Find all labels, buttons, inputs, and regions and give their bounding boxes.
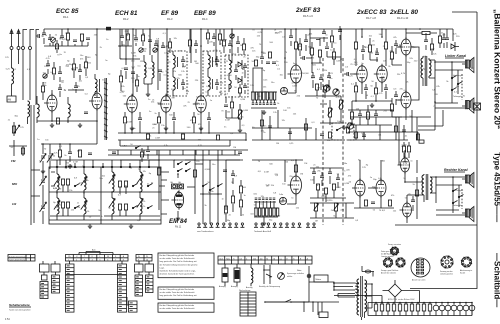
- nf lower parts: [260, 120, 263, 126]
- svg-text:Tasten-bezeichnung: Tasten-bezeichnung: [9, 258, 25, 261]
- AM coil column 2: [84, 174, 86, 190]
- speaker right lower: [466, 209, 470, 217]
- contact pairs mid: [202, 185, 203, 186]
- wire IF can2 links: [208, 51, 213, 96]
- svg-text:Tasten von oben gesehen: Tasten von oben gesehen: [9, 309, 31, 312]
- wire EM84 links: [159, 150, 195, 216]
- right mid extra parts: [402, 146, 405, 152]
- resistor R7: [58, 150, 61, 157]
- ground det: [238, 128, 242, 133]
- svg-text:Type 4515d/55——: Type 4515d/55——: [493, 152, 500, 222]
- switch bank B ladder: [52, 275, 60, 293]
- svg-text:Abschirmung im: Abschirmung im: [460, 269, 473, 272]
- netz pot: [278, 273, 285, 280]
- wire tone II: [310, 168, 354, 218]
- note paragraph 1: [158, 253, 214, 278]
- volume pot circle a: [324, 85, 330, 91]
- small tube cap II: [279, 197, 286, 204]
- junction dots transformer: [333, 282, 335, 284]
- table voltages: [240, 292, 256, 316]
- fuse above transformer: [365, 270, 371, 273]
- heater parts: [238, 152, 242, 154]
- svg-text:Fassung von der: Fassung von der: [440, 270, 453, 273]
- svg-text:Spannungs-: Spannungs-: [287, 273, 297, 275]
- wire IF verticals: [120, 29, 232, 96]
- svg-text:—Schaltbild—: —Schaltbild—: [493, 253, 500, 307]
- svg-text:1M: 1M: [266, 185, 269, 187]
- speaker right upper: [466, 175, 470, 183]
- wire splitter bottom: [352, 82, 392, 101]
- component box psu: [319, 312, 328, 318]
- tuning gang cap 2: [40, 202, 47, 212]
- wire tone links: [305, 72, 341, 98]
- svg-text:an der mittler Taste bei der S: an der mittler Taste bei der Schalterste…: [160, 257, 196, 260]
- output extra parts top: [424, 40, 428, 42]
- svg-text:an der mittler Taste bei der S: an der mittler Taste bei der Schalterste…: [160, 291, 196, 294]
- grid resistor row: [252, 92, 254, 100]
- svg-text:Ph: Ph: [68, 256, 70, 258]
- wire pots: [320, 96, 344, 125]
- wire OPT left taps: [423, 56, 435, 102]
- anode resistor II: [294, 165, 297, 172]
- resistor R8: [78, 150, 81, 157]
- right channel bottom rail: [395, 160, 477, 225]
- svg-text:0,5M: 0,5M: [292, 86, 297, 88]
- table switch positions main: [66, 255, 129, 262]
- ECC85 triode b: [92, 93, 102, 109]
- osc coil cluster coil1: [144, 62, 146, 78]
- ground AM box: [88, 224, 92, 229]
- svg-text:4 54: 4 54: [5, 318, 10, 321]
- svg-text:Fassg. von unten: Fassg. von unten: [388, 243, 401, 246]
- svg-text:Schalterskizze: Schalterskizze: [9, 303, 30, 307]
- anode resistor R32: [384, 42, 387, 49]
- coupling caps right: [347, 72, 349, 76]
- switch bank C ladder: [66, 264, 75, 312]
- ground EM84: [176, 216, 180, 221]
- EBF89 tube: [196, 96, 206, 112]
- ground splitter: [370, 103, 374, 108]
- terminal pair far: [307, 223, 309, 225]
- treble pot: [328, 108, 331, 117]
- EF83 tube II: [291, 176, 302, 194]
- ground FM 4: [68, 164, 72, 169]
- ECH81 tube: [127, 96, 137, 112]
- svg-text:„Ballerina Konzert Stereo 20“: „Ballerina Konzert Stereo 20“: [493, 9, 500, 129]
- ground FM 2: [78, 123, 82, 128]
- FM coil L4: [68, 104, 70, 117]
- wire AM top feeds: [49, 160, 159, 168]
- svg-text:0,5M: 0,5M: [336, 187, 341, 189]
- ground ECH81: [130, 126, 134, 131]
- IF can 2 trim caps: [215, 60, 219, 62]
- svg-text:0,5M: 0,5M: [155, 137, 160, 139]
- AM resistor pair 1: [61, 179, 64, 185]
- speaker switch contacts II: [452, 190, 453, 191]
- svg-text:8: 8: [123, 259, 124, 261]
- output transformer left core: [425, 56, 427, 86]
- switch bank D ladder: [118, 264, 127, 312]
- speaker switch dashed link right: [461, 189, 463, 209]
- wire ELL80 links: [392, 40, 406, 120]
- antenna terminals: [10, 47, 13, 50]
- choke coil: [251, 268, 253, 283]
- wire AGC return: [120, 140, 230, 146]
- top fm extra labels parts: [48, 38, 52, 40]
- ratio detector can: [225, 55, 248, 97]
- output transformer right core: [426, 174, 428, 200]
- coil L2: [28, 101, 30, 117]
- trimmer C2: [51, 38, 56, 43]
- osc coil cluster coil2: [152, 62, 154, 78]
- svg-text:4: 4: [92, 259, 93, 261]
- ground pots: [342, 125, 346, 130]
- svg-text:1M: 1M: [315, 220, 318, 222]
- resistor R2: [21, 148, 24, 154]
- svg-text:0,5M: 0,5M: [131, 53, 136, 55]
- svg-text:Rö.2: Rö.2: [123, 17, 129, 21]
- right channel bottom parts: [415, 190, 418, 196]
- wire mid col: [226, 180, 241, 222]
- socket diagram octal flower: [441, 256, 453, 268]
- IF can 2 box: [203, 51, 221, 96]
- resistors mid col: [239, 186, 242, 193]
- antenna hook 3: [23, 30, 27, 47]
- svg-text:Bei der Überprüfung gilt der B: Bei der Überprüfung gilt der Buchstabe: [160, 304, 195, 307]
- svg-text:Rö.4: Rö.4: [202, 17, 208, 21]
- cap C21: [303, 56, 305, 60]
- cap C30: [361, 50, 365, 52]
- svg-text:1M: 1M: [276, 143, 279, 145]
- svg-text:schalter: schalter: [297, 272, 304, 275]
- svg-text:Schalter-bezeichnung: Schalter-bezeichnung: [9, 255, 26, 258]
- svg-text:5: 5: [99, 259, 100, 261]
- tone network II caps: [312, 172, 316, 174]
- cap C4: [73, 40, 77, 42]
- ground FM 1: [50, 123, 54, 128]
- cathode resistor ECH81: [123, 117, 126, 123]
- mains transformer primary: [357, 279, 359, 315]
- speaker left upper: [466, 60, 470, 68]
- svg-text:Daten grau Marken: Daten grau Marken: [381, 250, 396, 253]
- svg-text:1M: 1M: [300, 173, 303, 175]
- cap C10: [88, 153, 92, 155]
- IF can 1 coil bottom: [173, 77, 175, 90]
- trimmer det: [230, 34, 234, 38]
- socket diagram right: [462, 257, 472, 267]
- tuning cap CV1: [40, 154, 46, 163]
- wire NF mid links: [288, 38, 341, 93]
- AM resistor pair 2: [61, 202, 64, 208]
- ECC83 tube a: [357, 66, 367, 82]
- EF89 tube: [161, 96, 171, 112]
- svg-text:der AM Spule dann: der AM Spule dann: [381, 253, 395, 256]
- ELL80 tube upper: [401, 39, 411, 55]
- screen resistors row: [146, 134, 149, 139]
- wire table drop lines: [43, 261, 149, 275]
- wire lower antenna: [9, 140, 27, 156]
- resistor R6: [56, 118, 59, 124]
- psu connection table: [218, 256, 312, 264]
- switch bank B top box: [51, 264, 60, 272]
- tone resistors cluster: [315, 84, 318, 90]
- speaker left lower: [466, 101, 470, 109]
- svg-text:wähler: wähler: [287, 276, 293, 278]
- cap row under resistors: [252, 103, 255, 105]
- cap C23: [316, 38, 320, 40]
- svg-text:Motor: Motor: [316, 278, 322, 281]
- switch bank E top box: [135, 264, 144, 272]
- svg-text:Sämtliche Schalterkontakte sin: Sämtliche Schalterkontakte sind in unge-: [160, 270, 197, 273]
- terminal strip right: [255, 223, 257, 225]
- resistor R23: [310, 48, 313, 55]
- wire AM box bus: [49, 185, 161, 220]
- svg-text:220: 220: [253, 258, 256, 260]
- wire IF can1 links: [173, 51, 178, 96]
- svg-text:0,5M: 0,5M: [243, 110, 248, 112]
- svg-text:110: 110: [260, 258, 263, 260]
- AM switch contacts 2: [132, 185, 133, 186]
- resistor R20: [254, 60, 257, 66]
- ground EBF89: [199, 126, 203, 131]
- ground EF89: [164, 126, 168, 131]
- svg-text:0,5M: 0,5M: [206, 86, 211, 88]
- svg-text:1M: 1M: [275, 32, 278, 34]
- wire speaker feed right: [436, 177, 465, 215]
- svg-text:Wechselstrom: Wechselstrom: [239, 289, 251, 292]
- motor box: [314, 275, 328, 282]
- svg-text:Arm: Arm: [92, 249, 96, 252]
- svg-text:0,5M: 0,5M: [68, 165, 73, 167]
- speaker switch dashed link: [461, 74, 463, 100]
- AM coil column 4: [140, 172, 142, 192]
- svg-text:7: 7: [115, 259, 116, 261]
- switch bank A top box: [40, 264, 50, 272]
- bypass cap EF89: [172, 118, 176, 120]
- note paragraph 3: [158, 303, 214, 312]
- cathode parts II: [364, 200, 367, 206]
- IF can 2 coil top: [208, 55, 210, 68]
- svg-text:lung particular. Die Zahl in V: lung particular. Die Zahl in Verbindung …: [160, 260, 197, 263]
- grid parts ELL80: [394, 44, 398, 46]
- svg-text:0,5M: 0,5M: [297, 46, 302, 48]
- svg-text:Anzapfg.: Anzapfg.: [231, 285, 239, 288]
- border right channel box: [410, 229, 477, 289]
- switch contacts above EM84: [177, 163, 178, 164]
- svg-text:0,5M: 0,5M: [225, 119, 230, 121]
- svg-text:an der mittler Taste bei der S: an der mittler Taste bei der Schalterste…: [160, 307, 196, 310]
- antenna hook 4: [30, 30, 34, 47]
- cathode resistor EF89: [157, 117, 160, 123]
- ECC83 tube b: [377, 66, 387, 82]
- screen resistor row top: [422, 31, 430, 34]
- svg-text:10: 10: [146, 259, 148, 261]
- channel divider dashed left: [322, 58, 324, 225]
- diode D1: [451, 44, 455, 49]
- ground row II: [262, 221, 266, 226]
- svg-text:0,5M: 0,5M: [74, 67, 79, 69]
- cap C7: [74, 86, 78, 88]
- wire top HT bus: [44, 28, 437, 30]
- AM resistor pair 3: [118, 181, 121, 187]
- osc section caps top: [120, 36, 124, 38]
- svg-text:1M: 1M: [58, 189, 61, 191]
- tone pots II: [314, 204, 319, 211]
- svg-text:zu den Röhren 300V: zu den Röhren 300V: [398, 299, 415, 301]
- antenna hook 5: [36, 30, 39, 57]
- svg-text:drückten Zustand der Taste gez: drückten Zustand der Taste gezeichnet.: [160, 273, 195, 276]
- ECC85 triode a: [47, 95, 57, 111]
- agc caps row: [154, 44, 158, 46]
- switch bank E ladder: [135, 275, 143, 296]
- IF can 1 coil top: [173, 55, 175, 68]
- nf coupling parts top: [304, 40, 308, 42]
- AM box top pins: [56, 166, 58, 168]
- FM trimmer extra: [43, 74, 47, 78]
- wire NF verticals: [253, 29, 341, 92]
- svg-text:1M: 1M: [233, 147, 236, 149]
- resistor R3: [66, 33, 69, 40]
- svg-text:Lineatur gewählt: Lineatur gewählt: [381, 255, 394, 258]
- AM coil column 3: [112, 172, 114, 192]
- cathode resistor EBF89: [192, 117, 195, 123]
- socket diagram flower b: [396, 258, 405, 267]
- svg-text:Rechter Kanal: Rechter Kanal: [444, 168, 469, 172]
- svg-text:0,5M: 0,5M: [127, 122, 132, 124]
- mid band link wires: [161, 160, 240, 214]
- svg-text:Bei der Überprüfung gilt der B: Bei der Überprüfung gilt der Buchstabe: [160, 254, 195, 257]
- svg-text:0,5M: 0,5M: [152, 124, 157, 126]
- dashed box lower mid: [332, 123, 354, 140]
- AM switch contacts 1: [74, 185, 75, 186]
- wire ELL80 IV: [405, 150, 423, 223]
- output transformer left secondary: [429, 60, 431, 76]
- svg-text:MW: MW: [12, 182, 17, 186]
- svg-text:Lötseite gesehen: Lötseite gesehen: [440, 273, 453, 276]
- svg-text:Ansicht der Lötseite: Ansicht der Lötseite: [381, 272, 396, 275]
- svg-text:2xECC 83: 2xECC 83: [356, 9, 387, 16]
- svg-text:Rö.3: Rö.3: [167, 17, 173, 21]
- FM extra parts a: [46, 64, 50, 66]
- svg-text:zum Tonabnehmer: zum Tonabnehmer: [197, 231, 214, 233]
- bass pot: [339, 100, 342, 109]
- svg-text:FM: FM: [11, 159, 16, 163]
- svg-text:4: 4: [246, 258, 247, 260]
- svg-text:0,5M: 0,5M: [264, 172, 269, 174]
- feedback resistors: [350, 112, 353, 119]
- wire splitter top: [362, 29, 382, 62]
- wire NF res row bus: [251, 92, 277, 108]
- resistor R4: [80, 34, 83, 41]
- wire osc links: [121, 70, 160, 92]
- detector parts top: [236, 42, 240, 44]
- svg-text:Rö.1: Rö.1: [63, 15, 69, 19]
- EF83 tube I: [291, 65, 302, 83]
- ratio det extra: [234, 70, 238, 72]
- ground FM 3: [41, 169, 45, 174]
- tuning gang cap 1: [40, 176, 47, 186]
- cap C8: [84, 112, 88, 114]
- bus fuse box: [106, 27, 111, 31]
- psu selector contacts: [264, 265, 272, 284]
- svg-text:Sich: Sich: [220, 258, 224, 260]
- svg-text:1M: 1M: [304, 163, 307, 165]
- svg-text:Rö.7 u.8: Rö.7 u.8: [366, 16, 376, 20]
- svg-text:Rö.9 u.10: Rö.9 u.10: [397, 16, 409, 20]
- AM coil column 1: [57, 174, 59, 190]
- caps mid: [223, 170, 227, 172]
- svg-text:Anschlg: Anschlg: [246, 286, 252, 289]
- osc caps: [124, 68, 128, 70]
- anode resistor R31: [368, 45, 371, 52]
- AM unit box: [49, 167, 161, 224]
- svg-text:2xELL 80: 2xELL 80: [389, 9, 418, 16]
- fb lower parts: [354, 132, 357, 138]
- svg-text:Netz-: Netz-: [297, 269, 302, 272]
- grid resistor row II: [255, 208, 257, 216]
- ELL80 tube III: [376, 180, 386, 196]
- wire IF row 140: [118, 133, 246, 140]
- wire FM mid links: [37, 82, 97, 121]
- top right corner bracket and right border: [452, 12, 477, 229]
- AM coil column 1b: [57, 198, 59, 214]
- note paragraph 2: [158, 287, 214, 299]
- ratio det coil: [229, 60, 231, 73]
- svg-text:0,5M: 0,5M: [240, 99, 245, 101]
- resistor R5: [41, 86, 44, 92]
- IF can 1 box: [168, 51, 187, 96]
- wire ELL80 drop: [398, 29, 406, 39]
- AM input terminal: [7, 96, 16, 102]
- switch bank F top box: [145, 264, 154, 272]
- output transformer right secondary: [430, 177, 432, 193]
- svg-text:Tonband- Anschluß: Tonband- Anschluß: [254, 230, 272, 233]
- wire OPT right taps: [424, 174, 436, 203]
- osc resistors: [119, 76, 122, 82]
- junction dots on top bus: [67, 28, 69, 30]
- rectifier bridge: [389, 284, 402, 297]
- nf lower mesh left: [252, 110, 344, 140]
- svg-text:6: 6: [107, 259, 108, 261]
- svg-text:LW: LW: [12, 202, 17, 206]
- svg-text:2: 2: [76, 259, 77, 261]
- shield partition: [105, 78, 107, 140]
- wire EF83 II links: [285, 160, 296, 204]
- FM coil L3: [37, 104, 39, 117]
- mixer cluster extra: [206, 33, 209, 39]
- fb lower mesh right: [348, 110, 418, 140]
- EM84 tube: [174, 192, 183, 208]
- wire ratio det links: [229, 55, 245, 94]
- wire psu bottom: [265, 300, 339, 316]
- table switch positions right: [136, 255, 152, 262]
- output transformer left primary: [421, 58, 423, 78]
- mixer cluster parts: [188, 40, 191, 46]
- ratio det caps: [243, 66, 247, 68]
- ELL80 tube IV upper: [401, 158, 410, 172]
- svg-text:Netz: Netz: [226, 257, 230, 260]
- volume pot circle b: [333, 89, 339, 95]
- IF can 1 trim caps: [181, 60, 185, 62]
- tone network II resistors: [316, 184, 319, 190]
- mains transformer secondary: [365, 280, 367, 312]
- AM box divider: [100, 167, 102, 224]
- tuning cap CV2: [47, 154, 53, 163]
- switch bank F ladder: [146, 275, 154, 293]
- svg-text:Rö.11: Rö.11: [175, 226, 182, 229]
- ELL80 tube lower: [401, 92, 411, 108]
- svg-text:1M: 1M: [240, 45, 243, 47]
